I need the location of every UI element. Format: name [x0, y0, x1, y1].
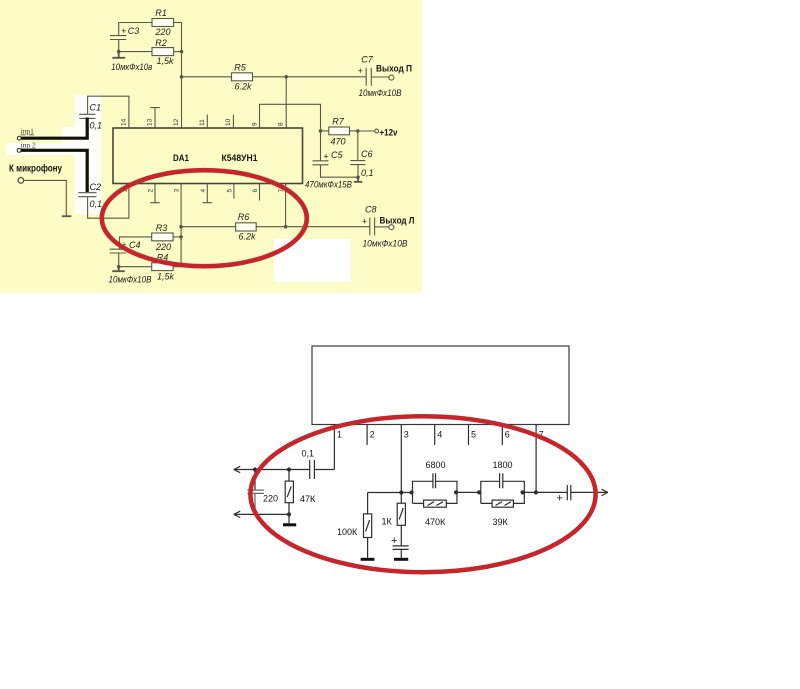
terminal inp 2 — [17, 141, 36, 153]
node R5 tee — [180, 75, 184, 79]
pin 2 — [367, 425, 375, 446]
svg-text:+: + — [362, 217, 367, 227]
capacitor 1800 — [493, 460, 513, 488]
node C4/R4 junction — [117, 265, 121, 269]
wire pin8 node down to pin 8 — [285, 77, 287, 128]
pin labels 14..8 — [121, 118, 285, 126]
capacitor 220 — [247, 470, 278, 515]
pin labels 1..7 — [121, 189, 285, 193]
svg-text:10: 10 — [225, 118, 232, 126]
wire output to arrow — [571, 491, 608, 493]
node R2/pin12 junction — [180, 50, 184, 54]
svg-text:4: 4 — [437, 430, 442, 440]
svg-text:220: 220 — [154, 27, 170, 37]
svg-text:+12v: +12v — [380, 128, 399, 139]
wire pin 9 to R7 node — [260, 104, 321, 131]
svg-text:5: 5 — [226, 189, 233, 193]
resistor 470К — [424, 500, 447, 527]
wire C3 bottom to junction — [118, 40, 120, 52]
node pin 7 junction — [534, 490, 538, 494]
pin 1 wire — [334, 425, 342, 470]
label К микрофону — [9, 163, 62, 175]
wire R3 right lead — [173, 236, 181, 238]
wire R2 left lead — [119, 51, 152, 53]
pin 10 — [232, 115, 234, 128]
svg-text:0,1: 0,1 — [90, 121, 103, 131]
wire R4 left lead — [119, 266, 152, 268]
arrow left upper — [234, 466, 240, 472]
svg-text:10мкФх10в: 10мкФх10в — [111, 62, 152, 72]
svg-text:470мкФх15В: 470мкФх15В — [305, 180, 352, 190]
ground mic — [62, 215, 72, 217]
svg-text:C2: C2 — [90, 182, 102, 192]
wire pin7 node to C8 — [286, 226, 370, 228]
svg-text:10мкФх10В: 10мкФх10В — [359, 88, 402, 98]
node C3/R2 junction — [117, 50, 121, 54]
svg-text:R3: R3 — [156, 223, 168, 233]
svg-text:10мкФх10В: 10мкФх10В — [109, 275, 152, 285]
node R3 right — [179, 235, 183, 239]
wire R1 right lead — [174, 22, 182, 24]
svg-text:+: + — [323, 152, 328, 162]
terminal inp1 — [17, 127, 34, 141]
svg-text:13: 13 — [147, 118, 154, 126]
svg-text:2: 2 — [370, 430, 375, 440]
svg-text:2: 2 — [148, 189, 155, 193]
node RC2 right rail — [521, 490, 525, 494]
resistor R7 — [329, 117, 350, 147]
svg-text:R5: R5 — [234, 63, 246, 73]
wire C7 to output terminal — [371, 76, 389, 78]
svg-text:1,5k: 1,5k — [156, 56, 174, 66]
terminal +12v — [375, 128, 398, 139]
svg-text:470: 470 — [330, 137, 345, 147]
wire R2 right lead — [174, 51, 182, 53]
ground below 47К — [283, 514, 296, 526]
svg-text:C1: C1 — [90, 103, 102, 113]
capacitor C4 — [110, 240, 141, 253]
svg-text:+: + — [557, 493, 563, 505]
svg-text:0,1: 0,1 — [90, 199, 103, 209]
svg-text:inp1: inp1 — [21, 127, 35, 136]
svg-text:C8: C8 — [365, 205, 377, 215]
arrow right output — [602, 489, 608, 495]
svg-text:3: 3 — [404, 430, 409, 440]
svg-text:R2: R2 — [155, 38, 167, 48]
svg-text:Выход Л: Выход Л — [380, 216, 415, 227]
terminal Выход Л — [380, 216, 415, 230]
wire R3 left to C4 top — [120, 237, 152, 249]
wire RC1 to RC2 — [457, 491, 481, 493]
yellow scanned-schematic background — [0, 0, 422, 293]
capacitor C3 — [110, 26, 139, 40]
wire R7 right lead — [350, 130, 358, 132]
resistor R5 — [232, 63, 253, 92]
wire pin8 node to C7 — [286, 76, 366, 78]
svg-text:47К: 47К — [300, 494, 316, 504]
wire mid rail — [368, 492, 413, 494]
ground below C6 — [354, 177, 363, 182]
red ellipse annotation (top) — [102, 170, 307, 266]
capacitor 6800 — [426, 460, 446, 488]
resistor R1 — [152, 8, 174, 37]
svg-text:470К: 470К — [425, 517, 446, 527]
value label 470мкФх15В — [305, 180, 352, 190]
wire R6 right to pin7 node — [256, 226, 285, 228]
svg-text:3: 3 — [174, 189, 181, 193]
wire R1 left lead to C3 top — [119, 23, 152, 36]
svg-text:6800: 6800 — [426, 460, 446, 470]
capacitor C5 — [313, 131, 359, 177]
wire inp1 thick — [21, 118, 89, 140]
capacitor C7 — [358, 55, 402, 99]
svg-text:R7: R7 — [332, 117, 344, 127]
wire pin 3 down — [180, 184, 182, 267]
svg-text:+: + — [121, 26, 126, 36]
svg-text:10мкФх10В: 10мкФх10В — [363, 239, 408, 249]
wire RC2 to output cap — [524, 491, 567, 493]
svg-text:9: 9 — [252, 122, 259, 126]
svg-text:1: 1 — [337, 430, 342, 440]
svg-text:5: 5 — [471, 430, 476, 440]
wire vertical R1/R2 node down to pin 12 — [181, 23, 183, 129]
pin 7 wire — [536, 425, 544, 493]
svg-text:C4: C4 — [129, 240, 141, 250]
node pin3/R6 — [179, 225, 183, 229]
svg-text:11: 11 — [199, 119, 206, 126]
svg-text:Выход П: Выход П — [376, 64, 412, 75]
pin 5 — [469, 425, 477, 446]
ground below 100К — [361, 558, 375, 561]
node RC2 left — [477, 490, 481, 494]
wire upper left rail — [234, 469, 310, 471]
wire C1 top to pin 14 — [88, 96, 129, 128]
node 47К top — [287, 467, 291, 471]
ground below electrolytic — [394, 558, 408, 561]
svg-text:6.2k: 6.2k — [238, 232, 256, 242]
pin 4 — [435, 425, 443, 446]
wire R4 right lead — [173, 266, 181, 268]
pin 3 wire — [401, 425, 409, 493]
capacitor electrolytic below 1К — [391, 535, 409, 558]
svg-text:6.2k: 6.2k — [234, 82, 252, 92]
pin 11 — [206, 115, 208, 128]
red ellipse annotation (bottom) — [250, 416, 595, 572]
wire 0,1 to pin 1 — [314, 469, 334, 471]
node RC1 right — [454, 490, 458, 494]
resistor R2 — [152, 38, 174, 66]
svg-text:8: 8 — [278, 122, 285, 126]
wire C4 bottom to junction — [118, 253, 120, 267]
wire lower left rail — [234, 513, 289, 515]
wire mic terminal to ground — [24, 180, 67, 216]
svg-text:+: + — [391, 535, 397, 547]
node pin7/R6/C8 — [284, 225, 288, 229]
wire C8 to output terminal — [375, 226, 390, 228]
capacitor C2 — [78, 182, 102, 209]
terminal Выход П — [376, 64, 412, 81]
resistor R6 — [236, 212, 257, 242]
svg-text:0,1: 0,1 — [302, 449, 315, 459]
node pin8/R5/C7 — [284, 75, 288, 79]
capacitor output + — [557, 485, 571, 505]
op-amp IC DA1 К548УН1 body — [113, 128, 303, 184]
svg-text:220: 220 — [155, 242, 171, 252]
resistor 39К — [492, 500, 513, 527]
node pin3 junction — [399, 490, 403, 494]
svg-text:+: + — [358, 66, 363, 76]
node RC1 left entry — [410, 490, 414, 494]
resistor R4 — [152, 253, 175, 282]
capacitor C1 — [79, 103, 102, 131]
svg-text:1К: 1К — [382, 517, 393, 527]
svg-text:4: 4 — [200, 189, 207, 193]
wire R7 left lead — [321, 130, 329, 132]
node lower rail / 47К — [287, 512, 291, 516]
IC body (bottom schematic) — [312, 346, 569, 425]
svg-text:1,5k: 1,5k — [157, 272, 175, 282]
wire to +12v terminal — [358, 130, 375, 132]
svg-text:C7: C7 — [361, 55, 373, 65]
resistor 47К — [285, 470, 316, 515]
svg-text:DA1: DA1 — [173, 153, 190, 164]
svg-text:C6: C6 — [361, 149, 373, 159]
node R7 left / C5 — [319, 129, 323, 133]
white paste patches — [75, 95, 101, 214]
RC pair 6800/470К frame — [413, 481, 458, 503]
wire pin 7 down — [285, 184, 287, 227]
resistor 1К — [382, 493, 406, 546]
pin 13 with bar — [150, 108, 160, 128]
svg-text:К548УН1: К548УН1 — [222, 153, 259, 164]
ground below C4 — [109, 267, 152, 285]
svg-text:12: 12 — [173, 118, 180, 126]
pin 5 — [233, 184, 235, 199]
svg-text:14: 14 — [121, 118, 128, 126]
pin 6 — [502, 425, 510, 446]
pin 2 with ground bar — [150, 184, 160, 203]
node R7 right / C6 — [356, 129, 360, 133]
svg-text:К микрофону: К микрофону — [9, 163, 62, 175]
wire R5 right to pin8 node — [253, 76, 287, 78]
pin 6 — [259, 184, 261, 201]
capacitor 0,1 — [302, 449, 315, 480]
resistor 100К — [337, 493, 372, 558]
arrow left lower — [234, 511, 240, 517]
svg-text:6: 6 — [505, 430, 510, 440]
node C5/C6 ground junction — [356, 175, 360, 179]
svg-text:C3: C3 — [128, 26, 140, 36]
svg-text:220: 220 — [263, 494, 278, 504]
RC pair 1800/39К frame — [481, 481, 525, 503]
wire inp2 thick — [21, 149, 89, 192]
svg-text:R6: R6 — [238, 212, 250, 222]
wire C2 bottom to pin 1 — [88, 184, 129, 219]
svg-text:C5: C5 — [331, 150, 343, 160]
capacitor C6 — [350, 131, 373, 178]
wire R6 left lead — [181, 226, 236, 228]
svg-text:6: 6 — [252, 189, 259, 193]
ground below C3 — [111, 52, 152, 72]
capacitor C8 — [362, 205, 408, 249]
pin 4 with ground bar — [203, 184, 213, 203]
wire R5 left lead — [182, 76, 232, 78]
resistor R3 — [152, 223, 173, 252]
terminal К микрофону — [18, 178, 24, 184]
node 220 tee — [253, 467, 257, 471]
svg-text:100К: 100К — [337, 527, 358, 537]
svg-text:inp 2: inp 2 — [21, 141, 36, 150]
svg-text:R1: R1 — [155, 8, 167, 18]
svg-text:0,1: 0,1 — [361, 168, 374, 178]
svg-text:1800: 1800 — [493, 460, 513, 470]
svg-text:39К: 39К — [493, 517, 509, 527]
